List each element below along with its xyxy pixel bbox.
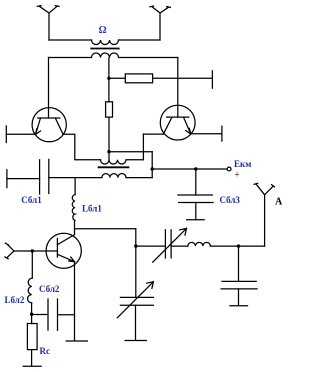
transformer T2 primary	[101, 160, 144, 164]
wire	[171, 245, 188, 247]
transistor Q3	[46, 233, 81, 268]
ground	[23, 365, 41, 367]
wire	[151, 152, 153, 178]
node	[237, 244, 240, 247]
wire collector Q1	[48, 58, 50, 119]
svg-text:Lбл2: Lбл2	[5, 295, 25, 305]
inductor L6l2	[28, 278, 32, 303]
terminal tick	[6, 170, 8, 188]
node	[151, 167, 154, 170]
variable capacitor C3	[117, 282, 153, 341]
inductor L6l1	[72, 178, 75, 235]
variable capacitor C1	[153, 228, 187, 262]
resistor R2 (horizontal)	[125, 74, 152, 83]
capacitor C6l3	[178, 169, 213, 220]
transformer T1 primary	[92, 40, 119, 45]
wire	[108, 117, 110, 161]
transformer T1 secondary	[49, 53, 178, 58]
input terminal	[5, 243, 14, 259]
antenna W2	[150, 6, 171, 40]
svg-text:+: +	[235, 170, 240, 180]
wire	[31, 303, 33, 324]
terminal tick	[221, 126, 223, 141]
node	[194, 167, 197, 170]
node	[31, 249, 34, 252]
node	[134, 244, 137, 247]
capacitor C6l1	[7, 159, 49, 194]
wire emitter Q1	[6, 133, 35, 135]
wire	[119, 39, 161, 41]
transistor Q2	[160, 105, 195, 140]
inductor L1	[188, 242, 211, 246]
svg-text:Сбл2: Сбл2	[39, 284, 60, 294]
transistor Q1	[32, 108, 66, 142]
wire	[31, 251, 33, 278]
wire	[31, 350, 33, 366]
wire	[136, 245, 166, 247]
resistor Rc	[27, 324, 37, 350]
svg-text:Сбл3: Сбл3	[220, 195, 241, 205]
wire	[135, 229, 137, 298]
wire supply rail	[152, 168, 227, 170]
wire emitter Q3	[74, 262, 76, 341]
wire base Q3	[14, 250, 57, 252]
antenna W1	[37, 6, 59, 40]
svg-text:Rс: Rс	[40, 346, 51, 356]
node center tap T1	[107, 77, 110, 80]
transformer T2 secondary	[49, 174, 152, 178]
terminal tick	[5, 126, 7, 143]
wire	[210, 245, 264, 247]
svg-text:Lбл1: Lбл1	[82, 204, 102, 214]
wire	[63, 134, 101, 160]
transformer T1 core	[91, 48, 118, 50]
svg-text:Екм: Екм	[234, 159, 251, 169]
capacitor C2	[221, 246, 257, 306]
node	[30, 313, 33, 316]
wire emitter Q2	[191, 133, 222, 135]
wire	[49, 39, 92, 41]
transformer T2 core	[99, 166, 129, 168]
terminal tick	[211, 71, 213, 88]
svg-text:Ω: Ω	[99, 25, 107, 36]
capacitor C6l2	[32, 299, 75, 330]
svg-text:Сбл1: Сбл1	[21, 195, 42, 205]
wire bias rail	[109, 77, 125, 79]
wire	[143, 133, 163, 135]
resistor R1 (vertical)	[106, 102, 113, 117]
wire collector Q2	[177, 58, 179, 118]
wire	[153, 77, 213, 79]
terminal Ekm	[227, 167, 231, 171]
ground tick	[66, 340, 87, 342]
wire tap rail	[109, 151, 152, 153]
svg-text:A: A	[275, 197, 283, 208]
wire collector rail	[75, 228, 136, 230]
wire	[142, 134, 144, 160]
antenna A	[254, 183, 274, 246]
